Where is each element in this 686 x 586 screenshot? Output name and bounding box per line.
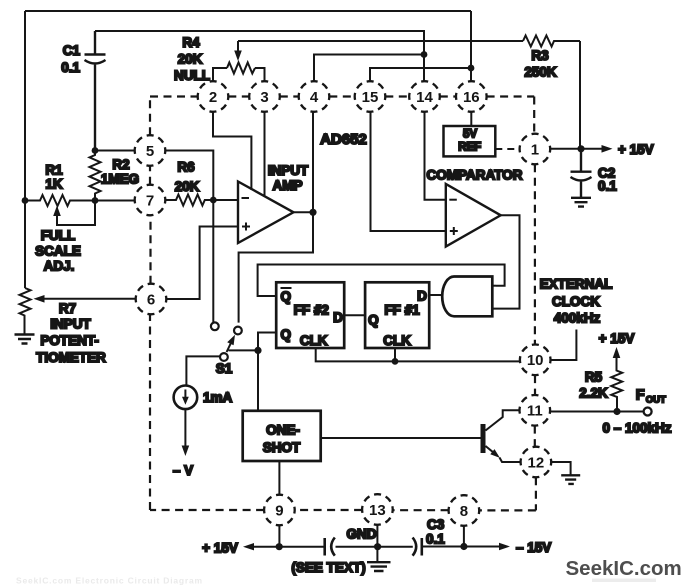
svg-text:3: 3 [260, 89, 268, 106]
pin 10 [520, 345, 551, 376]
wire pin1 to +15V arrow [550, 148, 601, 150]
op-amp plus symbol [242, 223, 250, 231]
wire pin15 down to comparator plus [371, 112, 446, 231]
wire FF1 D to AND gate [429, 294, 443, 296]
svg-text:8: 8 [460, 503, 468, 520]
svg-text:REF: REF [458, 142, 481, 154]
ground (GND pin13) [367, 562, 391, 571]
svg-text:7: 7 [146, 192, 154, 209]
svg-text:Q: Q [368, 313, 379, 328]
flip-flop FF #1 box [365, 282, 429, 348]
node CLK junction [392, 358, 399, 365]
svg-text:R1: R1 [45, 163, 63, 178]
pin 1 [520, 134, 551, 165]
comparator plus symbol [450, 227, 458, 235]
svg-text:1mA: 1mA [203, 390, 233, 405]
wire FF2 Qbar loop to AND gate upper input [258, 265, 505, 297]
svg-text:CLK: CLK [300, 333, 328, 348]
svg-text:6: 6 [147, 291, 155, 308]
ground (R7) [15, 335, 35, 344]
pin 6 [136, 284, 167, 315]
IC pin numbers [146, 89, 544, 520]
svg-text:+ 15V: + 15V [599, 331, 635, 346]
dashed IC package boundary AD652 [150, 97, 536, 511]
svg-text:14: 14 [416, 89, 433, 106]
svg-text:(SEE TEXT): (SEE TEXT) [291, 560, 365, 575]
capacitor C1 0.1 [85, 31, 106, 151]
wire bottom supply line right segment with -15V arrow [423, 546, 499, 548]
wire R1 node to pin7 [95, 200, 135, 202]
svg-text:13: 13 [369, 502, 386, 519]
ground (pin12) [561, 475, 580, 484]
capacitor see-text left plate [323, 538, 326, 556]
wire AND gate upper input stub [492, 285, 496, 287]
pin 8 [449, 495, 480, 526]
wire R1 wiper loop (full scale adj) [57, 201, 95, 226]
wire pin8 down to bottom line [463, 526, 465, 547]
switch S1 common contact [220, 353, 228, 361]
svg-text:R6: R6 [177, 160, 195, 175]
wire one-shot output to transistor base [321, 437, 481, 439]
wire pin13 down through line to ground [376, 525, 378, 562]
wire 1mA to S1 common [186, 356, 220, 385]
wire S1 arm base to Q/one-shot node [229, 349, 259, 351]
5V REF box [444, 126, 496, 156]
node S1/Q/one-shot junction [254, 347, 261, 354]
wire pin4 down to op-amp output [312, 112, 314, 213]
capacitor C3 right plate [420, 538, 423, 556]
svg-text:CLOCK: CLOCK [552, 294, 600, 309]
svg-text:Q: Q [281, 327, 292, 342]
wire pin2 jog down to op-amp top edge [213, 112, 251, 190]
pin 11 [520, 395, 551, 426]
svg-text:INPUT: INPUT [268, 163, 309, 178]
wire R3 right down to +15V node [579, 41, 581, 149]
node pin8/bottom line junction [460, 543, 467, 550]
node R5/Fout junction [613, 408, 620, 415]
capacitor see-text right plate curved [331, 538, 335, 556]
node pin13/bottom line junction [374, 543, 381, 550]
switch S1 right contact [234, 327, 242, 335]
pin 3 [249, 81, 280, 112]
IC pin circles (dashed) [135, 81, 552, 526]
svg-text:SHOT: SHOT [263, 440, 301, 455]
watermark faint under logo [592, 579, 656, 583]
svg-text:R7: R7 [59, 301, 76, 316]
svg-text:0.1: 0.1 [426, 532, 445, 547]
pin 9 [264, 495, 295, 526]
svg-text:400kHz: 400kHz [554, 311, 601, 326]
svg-text:SCALE: SCALE [35, 244, 81, 259]
wire junction to pin5 [95, 150, 135, 152]
node rail/R1 junction [22, 197, 29, 204]
svg-text:EXTERNAL: EXTERNAL [540, 277, 613, 292]
pin 5 [135, 135, 166, 166]
wire CLK line FF2 to pin10 [316, 348, 520, 361]
svg-text:12: 12 [528, 454, 545, 471]
wire pin9 down to bottom supply line [278, 525, 280, 546]
svg-text:R4: R4 [182, 35, 200, 50]
transistor Q1 base bar [481, 424, 486, 453]
potentiometer R7 vertical [20, 288, 31, 334]
svg-text:FULL: FULL [41, 228, 76, 243]
pin 4 [299, 81, 330, 112]
comparator U2 triangle [446, 184, 501, 247]
wire bottom supply line middle segment [336, 546, 413, 548]
svg-text:D: D [333, 310, 343, 325]
svg-text:FF #1: FF #1 [384, 303, 420, 318]
switch S1 arm with arrow [227, 342, 232, 352]
wire one-shot bottom to pin9 [278, 461, 280, 495]
node R6/opamp- junction [210, 197, 217, 204]
svg-text:1MEG: 1MEG [101, 172, 139, 187]
svg-text:20K: 20K [178, 52, 203, 67]
svg-text:16: 16 [463, 89, 480, 106]
svg-text:AMP: AMP [273, 178, 303, 193]
node +15V/C2/R3 junction [577, 145, 584, 152]
wire left rail vertical [24, 11, 26, 288]
svg-text:2.2K: 2.2K [579, 386, 608, 401]
wire R4 right lead to pin3 [255, 68, 265, 82]
node R1/R2 junction [92, 197, 99, 204]
wire pin16 down to 5V REF [470, 112, 472, 126]
svg-text:4: 4 [310, 89, 319, 106]
resistor R2 1MEG vertical [90, 151, 101, 201]
AND gate (mirrored) [442, 277, 492, 317]
svg-text:R3: R3 [531, 48, 549, 63]
svg-text:C1: C1 [63, 43, 81, 58]
node op-amp output junction [309, 209, 316, 216]
svg-text:0.1: 0.1 [598, 179, 617, 194]
svg-text:NULL: NULL [174, 68, 210, 83]
wire bottom supply line left segment with +15V arrow [254, 546, 324, 548]
pin 15 [355, 81, 386, 112]
svg-text:+ 15V: + 15V [202, 541, 238, 556]
svg-text:SeekIC.com: SeekIC.com [566, 557, 682, 580]
svg-text:+ 15V: + 15V [618, 142, 654, 157]
wire op-amp output feedback down to S1 right contact [239, 212, 313, 322]
wire R6 node down to S1 left contact [212, 200, 214, 322]
pin 12 [521, 447, 552, 478]
current source 1mA circle [174, 386, 198, 410]
svg-text:1K: 1K [45, 177, 63, 192]
wire pin14 down to comparator minus [425, 112, 446, 200]
wire pin16 vertical to top rail [470, 11, 472, 82]
wire pin15 jog to pin16 vertical [370, 68, 471, 82]
wire pin4 jog to pin14 vertical [314, 55, 424, 82]
node pin9/bottom line junction [276, 543, 283, 550]
pin 14 [409, 81, 440, 112]
svg-text:11: 11 [527, 403, 543, 420]
svg-text:FF #2: FF #2 [294, 303, 329, 318]
wire dashed left edge [149, 97, 152, 511]
wire pin5 right jog down to R6 node [166, 151, 214, 201]
svg-text:R5: R5 [585, 370, 603, 385]
svg-text:250K: 250K [524, 65, 557, 80]
svg-text:5V: 5V [463, 129, 477, 141]
svg-text:CLK: CLK [383, 333, 411, 348]
wire C1-top to pin14 vertical [95, 31, 424, 82]
wire FF2 Q output [258, 333, 276, 411]
wire FF2 D to FF1 Q [344, 314, 365, 316]
svg-text:0 – 100kHz: 0 – 100kHz [602, 421, 671, 436]
wire dashed top edge [150, 95, 534, 97]
wire 1mA down to -V arrow [184, 409, 186, 448]
wire dashed bottom edge [150, 509, 536, 512]
op-amp minus symbol [242, 197, 250, 199]
wire op-amp output [294, 211, 314, 213]
svg-text:S1: S1 [216, 361, 233, 376]
svg-text:20K: 20K [175, 179, 200, 194]
svg-text:OUT: OUT [646, 395, 666, 406]
one-shot U3 box [243, 411, 321, 461]
svg-text:F: F [636, 388, 645, 404]
current source arrow [184, 390, 186, 399]
flip-flop FF #2 box [276, 282, 344, 348]
wire R4 wiper arrow [237, 41, 239, 51]
node junction pin15/pin16 wire [468, 65, 475, 72]
svg-text:2: 2 [209, 89, 217, 106]
wire pin6 right jog to op-amp plus input [167, 227, 238, 300]
svg-text:ONE-: ONE- [266, 423, 300, 438]
svg-text:AD652: AD652 [320, 131, 367, 148]
svg-text:10: 10 [527, 352, 544, 369]
resistor R6 20K [166, 195, 214, 206]
pin 16 [456, 81, 487, 112]
capacitor C2 0.1 [571, 149, 592, 197]
resistor R5 2.2K vertical [611, 353, 622, 412]
op-amp U1 input amp triangle [238, 182, 294, 244]
transistor emitter to pin12 [486, 446, 521, 462]
svg-text:0.1: 0.1 [61, 60, 80, 75]
wire 5V REF to pin1 [495, 148, 519, 150]
pin 7 [135, 185, 166, 216]
pin 2 [198, 81, 229, 112]
wire R6 node to op-amp minus input [213, 199, 238, 201]
svg-text:INPUT: INPUT [50, 317, 91, 332]
potentiometer R4 20K body [227, 63, 255, 74]
svg-text:– 15V: – 15V [516, 540, 551, 555]
wire dashed right edge [534, 97, 536, 511]
wire comparator output to AND gate lower input [492, 215, 519, 308]
wire pin12 to ground [551, 462, 570, 475]
pin 13 [362, 494, 393, 525]
svg-text:– V: – V [173, 463, 193, 478]
svg-text:GND: GND [347, 527, 377, 542]
capacitor C3 left plate curved [413, 538, 417, 556]
wire R4 wiper line to R3 [238, 40, 523, 42]
wire FF1 CLK down [394, 348, 396, 361]
node C1/R2/pin5 junction [92, 147, 99, 154]
resistor R3 250K [523, 36, 580, 47]
wire R7 wiper from pin6 [44, 298, 136, 300]
node junction pin4/pin14 wire [421, 51, 428, 58]
svg-text:COMPARATOR: COMPARATOR [427, 168, 523, 183]
switch S1 left contact [211, 322, 219, 330]
svg-text:1: 1 [531, 141, 539, 158]
svg-text:D: D [417, 289, 427, 304]
wire pin3 down to op-amp top edge [264, 112, 266, 197]
svg-text:TIOMETER: TIOMETER [36, 350, 106, 365]
comparator minus symbol [449, 199, 457, 201]
wire pin11 to Fout [550, 411, 643, 413]
svg-text:POTENT-: POTENT- [40, 333, 99, 348]
transistor collector to pin11 [486, 410, 520, 430]
svg-text:SeekIC.com Electronic Circuit: SeekIC.com Electronic Circuit Diagram [16, 576, 203, 586]
svg-text:15: 15 [362, 89, 379, 106]
svg-text:9: 9 [275, 502, 283, 519]
svg-text:5: 5 [146, 143, 154, 160]
svg-text:ADJ.: ADJ. [44, 259, 75, 274]
ground (C2) [571, 198, 591, 207]
wire external clock into pin10 [552, 330, 577, 361]
wire R4 left lead to pin2 [213, 68, 227, 82]
wire top-left rail horizontal [25, 10, 471, 12]
svg-text:Q: Q [281, 289, 292, 304]
svg-text:C3: C3 [427, 517, 445, 532]
potentiometer R1 1K [25, 195, 95, 206]
terminal Fout open circle [644, 408, 652, 416]
svg-text:R2: R2 [112, 157, 129, 172]
